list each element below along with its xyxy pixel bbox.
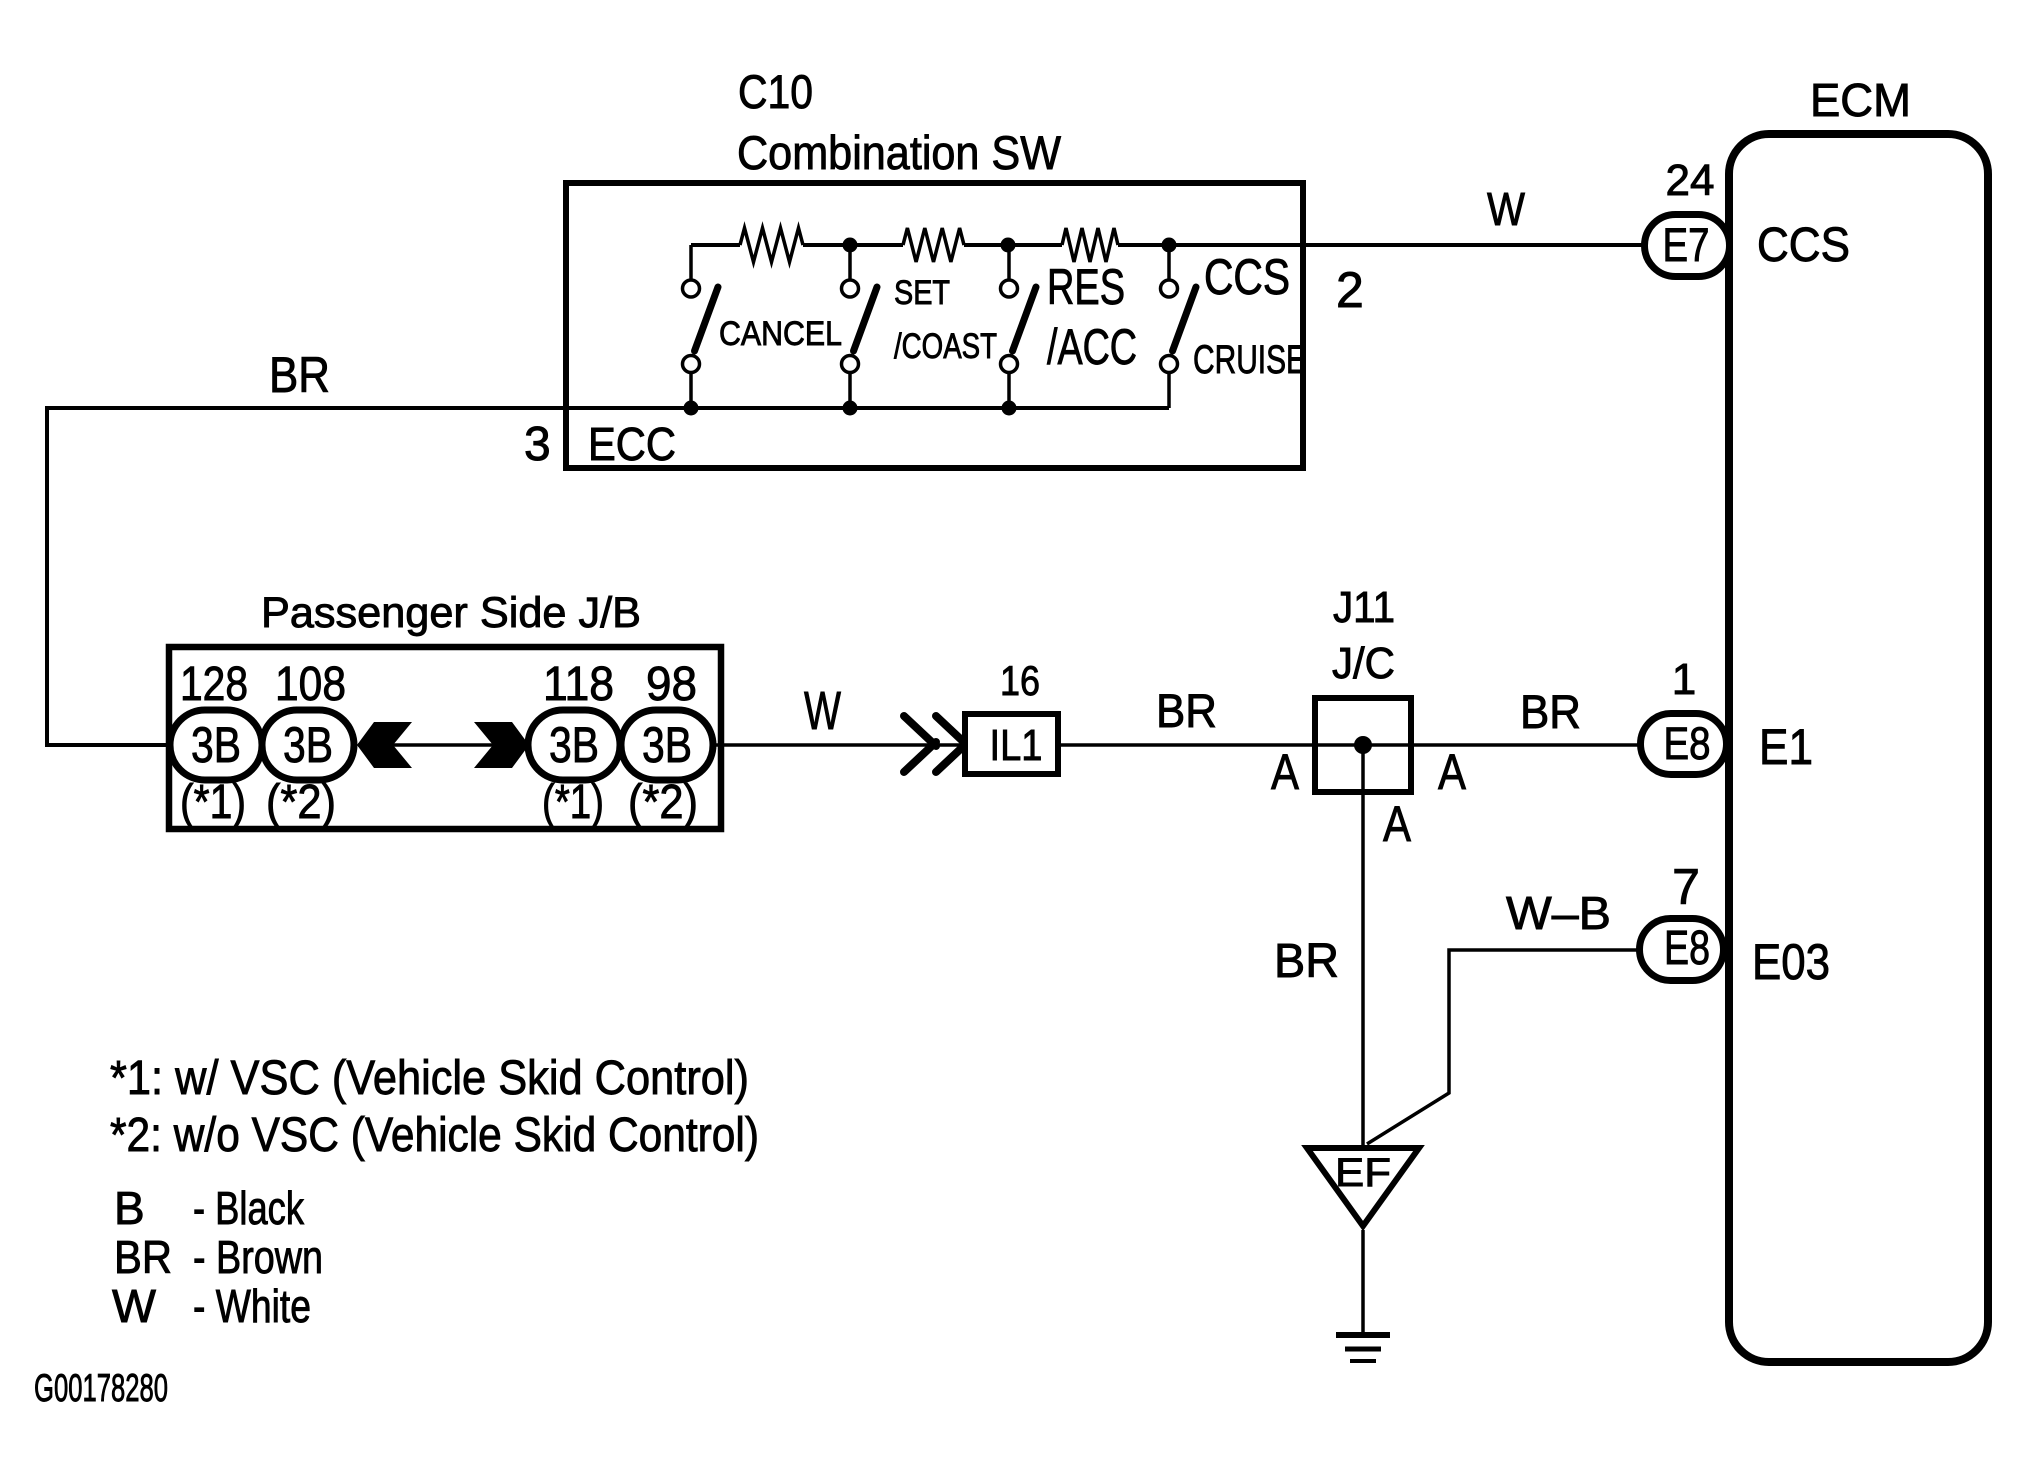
solid arrow pointing left xyxy=(357,722,412,768)
switch CANCEL: top contact xyxy=(683,280,700,297)
svg-text:/ACC: /ACC xyxy=(1047,319,1137,375)
ECM module box xyxy=(1729,134,1988,1362)
svg-text:(*2): (*2) xyxy=(628,776,698,829)
svg-text:E8: E8 xyxy=(1664,718,1711,769)
svg-text:CRUISE: CRUISE xyxy=(1193,338,1306,382)
switch RES/ACC: stub to bottom bus xyxy=(1007,373,1011,409)
wire from EF to ground symbol xyxy=(1361,1230,1365,1335)
switch CRUISE: stub from top bus xyxy=(1167,245,1171,280)
connector oval 3B #1 xyxy=(170,710,262,780)
svg-text:3B: 3B xyxy=(191,717,241,773)
switch SET/COAST: top contact xyxy=(842,280,859,297)
combination switch C10 box xyxy=(566,183,1303,468)
svg-text:BR: BR xyxy=(1520,685,1581,738)
junction node on top bus at x=850 xyxy=(843,238,858,253)
svg-text:RES: RES xyxy=(1047,259,1125,315)
connector oval 3B #3 xyxy=(528,710,620,780)
svg-text:W: W xyxy=(112,1280,157,1332)
svg-text:E1: E1 xyxy=(1759,719,1813,775)
svg-text:(*1): (*1) xyxy=(180,776,246,829)
wire from J11 down to ground EF (BR) xyxy=(1361,745,1365,1145)
wire: top bus of combination switch to ECM pin E7 (W) xyxy=(691,243,1644,247)
svg-text:W–B: W–B xyxy=(1506,887,1611,939)
connector E7 xyxy=(1645,215,1730,277)
svg-text:Combination SW: Combination SW xyxy=(737,126,1062,179)
svg-text:IL1: IL1 xyxy=(990,721,1043,770)
switch CRUISE: bottom contact xyxy=(1161,356,1178,373)
svg-text:G00178280: G00178280 xyxy=(34,1367,168,1410)
svg-text:BR: BR xyxy=(269,347,330,403)
switch RES/ACC: stub from top bus xyxy=(1007,245,1011,280)
connector oval 3B #2 xyxy=(262,710,354,780)
svg-text:118: 118 xyxy=(543,658,614,711)
resistor between SET/COAST and RES/ACC xyxy=(903,228,964,262)
W-B wire from ground EF to ECM pin E8 (E03) xyxy=(1367,950,1639,1144)
svg-text:128: 128 xyxy=(180,658,248,711)
wire through J/B xyxy=(358,743,962,747)
svg-text:CANCEL: CANCEL xyxy=(719,315,842,353)
svg-text:ECC: ECC xyxy=(588,418,676,470)
junction node inside J11 xyxy=(1354,736,1372,754)
svg-text:CCS: CCS xyxy=(1757,219,1850,272)
resistor between CANCEL and SET/COAST xyxy=(740,228,803,262)
svg-text:B: B xyxy=(114,1182,145,1234)
ground symbol xyxy=(1336,1332,1390,1338)
svg-text:108: 108 xyxy=(275,658,346,711)
switch CANCEL: stub to bottom bus xyxy=(689,373,693,409)
switch SET/COAST: lever xyxy=(854,287,878,351)
svg-text:SET: SET xyxy=(894,274,950,312)
svg-text:C10: C10 xyxy=(738,65,813,118)
switch RES/ACC: top contact xyxy=(1001,280,1018,297)
svg-text:(*2): (*2) xyxy=(266,776,336,829)
svg-text:(*1): (*1) xyxy=(542,776,604,829)
svg-text:E8: E8 xyxy=(1664,922,1710,975)
svg-text:BR: BR xyxy=(1274,935,1339,988)
svg-text:2: 2 xyxy=(1336,262,1364,318)
ground point EF triangle xyxy=(1307,1148,1419,1226)
switch CANCEL: lever xyxy=(695,287,719,351)
connector E8 (pin E03) xyxy=(1640,919,1724,981)
junction node on top bus at x=1169 xyxy=(1162,238,1177,253)
svg-text:A: A xyxy=(1438,744,1467,800)
connector E8 (pin E1) xyxy=(1641,714,1727,775)
svg-text:- Black: - Black xyxy=(193,1182,305,1234)
svg-text:W: W xyxy=(1487,183,1526,235)
svg-text:CCS: CCS xyxy=(1204,249,1290,305)
connector IL1 xyxy=(965,714,1058,774)
solid arrow pointing right xyxy=(474,722,529,768)
svg-text:24: 24 xyxy=(1666,156,1715,205)
resistor between RES/ACC and CRUISE xyxy=(1062,228,1118,262)
svg-text:W: W xyxy=(804,681,841,741)
svg-text:ECM: ECM xyxy=(1810,74,1911,126)
svg-text:*1: w/ VSC (Vehicle Skid Contr: *1: w/ VSC (Vehicle Skid Control) xyxy=(110,1052,749,1105)
svg-text:E03: E03 xyxy=(1752,934,1830,990)
svg-text:3B: 3B xyxy=(642,717,692,773)
switch CRUISE: lever xyxy=(1173,287,1197,351)
svg-text:3B: 3B xyxy=(283,717,333,773)
svg-text:- Brown: - Brown xyxy=(193,1231,323,1283)
svg-text:BR: BR xyxy=(114,1231,172,1283)
svg-text:3: 3 xyxy=(524,418,551,471)
svg-text:E7: E7 xyxy=(1663,218,1710,271)
svg-text:3B: 3B xyxy=(549,717,599,773)
double chevron arrows before IL1 xyxy=(904,716,968,772)
Passenger Side J/B box xyxy=(169,647,721,829)
switch CANCEL: bottom contact xyxy=(683,356,700,373)
svg-text:/COAST: /COAST xyxy=(894,327,997,366)
switch SET/COAST: bottom contact xyxy=(842,356,859,373)
wire from IL1 to junction J11 to ECM pin E8 (BR) xyxy=(1061,743,1640,747)
switch SET/COAST: stub from top bus xyxy=(848,245,852,280)
junction dots on bottom bus xyxy=(684,401,699,416)
junction connector J11 box xyxy=(1315,698,1411,792)
svg-text:98: 98 xyxy=(646,658,697,711)
switch SET/COAST: stub to bottom bus xyxy=(848,373,852,409)
switch CANCEL: stub from top bus xyxy=(689,245,693,280)
svg-text:*2: w/o VSC (Vehicle Skid Cont: *2: w/o VSC (Vehicle Skid Control) xyxy=(110,1109,759,1162)
svg-text:J/C: J/C xyxy=(1332,639,1395,688)
svg-text:A: A xyxy=(1383,796,1412,852)
svg-text:A: A xyxy=(1271,744,1300,800)
switch CRUISE: stub to bottom bus xyxy=(1167,373,1171,409)
switch RES/ACC: lever xyxy=(1013,287,1037,351)
svg-text:1: 1 xyxy=(1672,655,1696,704)
svg-text:J11: J11 xyxy=(1333,583,1395,632)
svg-text:- White: - White xyxy=(193,1280,311,1332)
wire: ECC bottom bus exiting C10, BR wire down and to Passenger Side J/B xyxy=(47,408,1169,745)
junction node on top bus at x=1008 xyxy=(1001,238,1016,253)
svg-text:7: 7 xyxy=(1672,859,1700,915)
switch CRUISE: top contact xyxy=(1161,280,1178,297)
svg-text:16: 16 xyxy=(1000,657,1040,704)
switch RES/ACC: bottom contact xyxy=(1001,356,1018,373)
connector oval 3B #4 xyxy=(621,710,713,780)
svg-text:Passenger Side J/B: Passenger Side J/B xyxy=(261,589,641,637)
svg-text:EF: EF xyxy=(1335,1151,1391,1195)
svg-text:BR: BR xyxy=(1156,684,1217,737)
